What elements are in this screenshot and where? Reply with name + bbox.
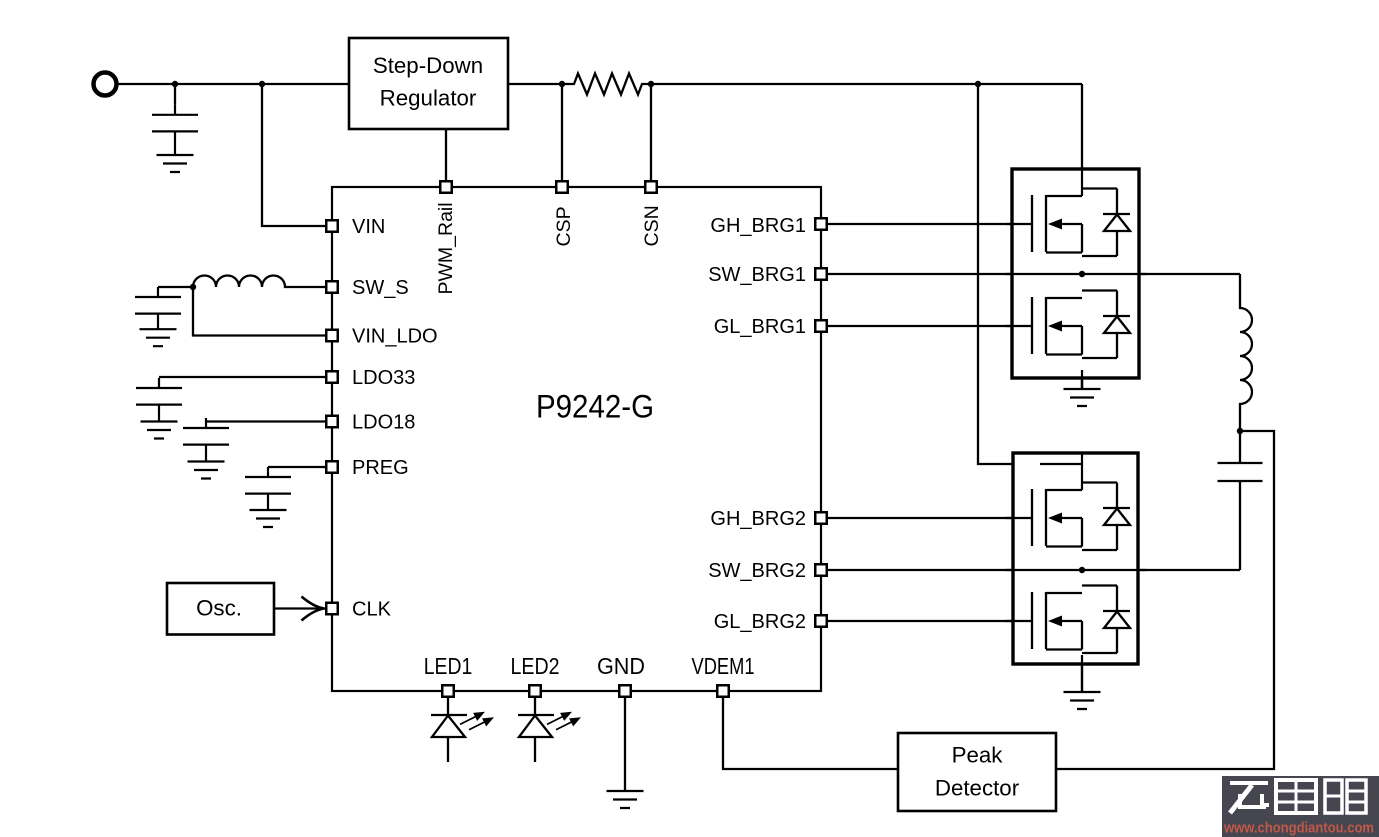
svg-text:SW_BRG1: SW_BRG1 [708,264,806,286]
svg-text:LDO33: LDO33 [352,367,415,389]
svg-text:Peak: Peak [952,743,1004,768]
svg-text:Osc.: Osc. [196,596,242,621]
svg-text:Regulator: Regulator [380,86,477,111]
svg-text:LED1: LED1 [424,653,473,679]
svg-text:SW_S: SW_S [352,277,409,299]
svg-text:CSN: CSN [641,205,663,246]
svg-text:GH_BRG1: GH_BRG1 [710,215,806,237]
svg-text:Step-Down: Step-Down [373,53,483,78]
svg-text:CLK: CLK [352,599,392,621]
svg-text:Detector: Detector [935,776,1020,801]
svg-text:LDO18: LDO18 [352,412,415,434]
svg-text:GL_BRG2: GL_BRG2 [714,611,806,633]
svg-text:VDEM1: VDEM1 [692,653,755,679]
svg-text:VIN_LDO: VIN_LDO [352,326,438,348]
svg-text:LED2: LED2 [511,653,560,679]
svg-text:SW_BRG2: SW_BRG2 [708,560,806,582]
svg-text:CSP: CSP [553,206,575,246]
svg-text:VIN: VIN [352,216,385,238]
svg-text:GND: GND [597,653,645,679]
svg-text:GL_BRG1: GL_BRG1 [714,316,806,338]
svg-text:GH_BRG2: GH_BRG2 [710,508,806,530]
svg-text:P9242-G: P9242-G [536,389,654,425]
svg-text:www.chongdiantou.com: www.chongdiantou.com [1223,821,1374,837]
svg-text:PWM_Rail: PWM_Rail [435,202,457,294]
svg-text:PREG: PREG [352,457,409,479]
